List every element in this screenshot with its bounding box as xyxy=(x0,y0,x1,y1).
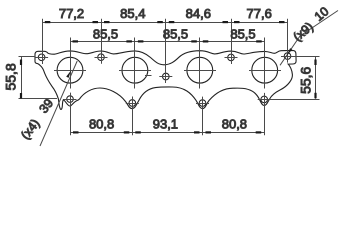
bottom ticks xyxy=(73,131,79,133)
bottom hole vertical ext lines xyxy=(71,93,265,136)
row2 ticks xyxy=(73,40,79,42)
svg-text:80,8: 80,8 xyxy=(89,117,114,132)
svg-text:77,2: 77,2 xyxy=(59,6,84,21)
port circle U4 xyxy=(252,57,278,83)
right dim xyxy=(271,57,320,100)
dimension lines xyxy=(19,11,339,147)
right dim ticks xyxy=(314,60,316,66)
port horizontal centerlines xyxy=(54,70,281,72)
bolt hole H6 xyxy=(67,96,74,103)
ticks xyxy=(20,21,317,134)
svg-text:85,5: 85,5 xyxy=(230,26,255,41)
svg-text:80,8: 80,8 xyxy=(222,117,247,132)
svg-text:(x9): (x9) xyxy=(291,20,316,45)
port circle U1 xyxy=(57,57,83,83)
bolt hole H3 (middle) xyxy=(163,73,170,80)
leader x9 arrowhead xyxy=(287,48,293,56)
bolt hole H5 (right tab) xyxy=(284,53,291,60)
row1 dim line xyxy=(43,22,288,24)
svg-text:(x4): (x4) xyxy=(18,116,42,142)
row2 dim line xyxy=(71,41,265,43)
svg-text:77,6: 77,6 xyxy=(247,6,272,21)
small hole horizontal crosshairs xyxy=(35,57,294,77)
mystery short segment xyxy=(145,75,152,77)
bolt hole H4 xyxy=(228,54,235,61)
svg-text:85,4: 85,4 xyxy=(120,6,145,21)
small holes xyxy=(38,53,291,107)
bolt hole H7 xyxy=(129,100,136,107)
bolt hole H8 xyxy=(199,100,206,107)
leader x4 xyxy=(40,61,77,146)
port vertical centerlines / row2 extension lines xyxy=(71,38,265,89)
svg-text:55,6: 55,6 xyxy=(298,66,314,93)
bottom dim line xyxy=(71,132,265,134)
leader x9 xyxy=(280,11,338,66)
dimension texts xyxy=(2,4,331,142)
svg-text:93,1: 93,1 xyxy=(153,117,178,132)
svg-text:84,6: 84,6 xyxy=(186,6,211,21)
svg-text:85,5: 85,5 xyxy=(93,26,118,41)
bolt hole H9 xyxy=(261,96,268,103)
bolt hole H1 (left tab) xyxy=(38,54,45,61)
gasket outline xyxy=(35,50,296,109)
svg-text:85,5: 85,5 xyxy=(163,26,188,41)
port circle U3 xyxy=(187,57,213,83)
svg-text:55,8: 55,8 xyxy=(2,63,18,90)
leader x4 arrowhead xyxy=(66,71,71,78)
centerlines xyxy=(35,19,294,136)
bolt hole H2 xyxy=(98,54,105,61)
row1 ticks xyxy=(45,21,51,23)
svg-text:39: 39 xyxy=(37,96,57,116)
top hole vertical ext lines to row1 xyxy=(43,19,288,83)
left dim ticks xyxy=(20,60,22,66)
left dim xyxy=(19,57,58,100)
svg-text:10: 10 xyxy=(312,4,332,24)
port circle U2 xyxy=(122,57,148,83)
